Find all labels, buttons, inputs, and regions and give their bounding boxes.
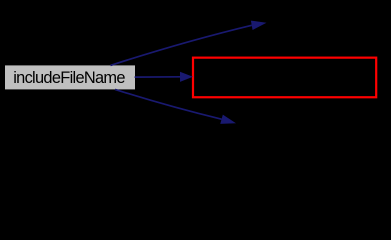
svg-text:includeFileName: includeFileName [13, 69, 125, 87]
